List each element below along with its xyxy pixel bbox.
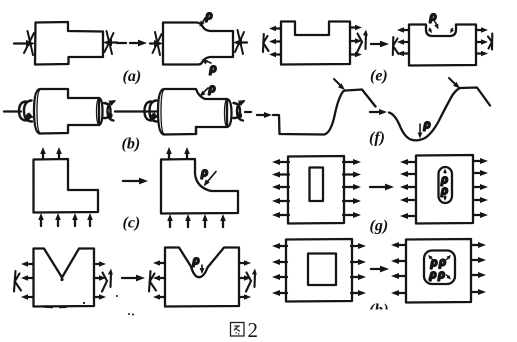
row a: transform dashed arrow <box>117 40 147 47</box>
row a: left bar load arrow left end <box>14 31 35 55</box>
row g: rho labels inside capsule <box>441 169 448 202</box>
row d: left block right end symbol <box>102 269 113 292</box>
row e: right bar right end symbol <box>488 34 492 50</box>
row g: left plate right arrows <box>343 159 361 218</box>
svg-text:(c): (c) <box>123 215 141 232</box>
row e: rho label with leader and corner arrows <box>428 8 454 33</box>
row e: left bar right arrows <box>350 25 362 58</box>
row h: right plate left arrows <box>391 242 405 296</box>
row e: left bar left end symbol <box>263 34 269 52</box>
row e: right notched bar with fillets <box>409 25 476 66</box>
row c: rho label with leader <box>201 164 217 187</box>
svg-text:(b): (b) <box>122 136 141 153</box>
row g: right plate left arrows <box>400 159 415 219</box>
row h: left plate right arrows <box>351 243 366 296</box>
row g: rectangular slot <box>310 168 324 202</box>
row g: left plate left arrows <box>272 159 289 218</box>
row f: left profile arrow <box>257 112 272 118</box>
row d: right block right end symbol <box>246 269 257 292</box>
row g: right plate right arrows <box>474 158 488 218</box>
row h: rounded square hole <box>424 251 455 285</box>
row a: right stepped bar with fillets <box>163 23 233 65</box>
svg-text:2: 2 <box>248 318 259 342</box>
row h: transform arrow <box>371 266 389 273</box>
row h: rho labels and corner arrows <box>428 254 451 282</box>
row c: left L-bracket <box>34 159 99 213</box>
row b: left shaft torque symbol left end <box>4 101 34 122</box>
row a: rho label top with leader <box>200 7 213 27</box>
row b: left stepped shaft body <box>34 89 103 134</box>
row a: left stepped bar <box>35 22 103 65</box>
row g: right plate <box>416 155 473 224</box>
row f: left profile with sharp corners <box>273 90 376 135</box>
svg-text:ρ: ρ <box>438 266 445 281</box>
svg-text:ρ: ρ <box>429 266 436 281</box>
row c: right top arrows <box>166 147 190 159</box>
row f: right profile peak arrow <box>449 78 460 89</box>
row d: rho label with down arrow <box>192 252 204 274</box>
row g: transform arrow <box>370 184 394 191</box>
row b: right shaft torque symbol left end <box>145 101 160 122</box>
row d: left block left arrows <box>21 261 33 300</box>
row a: right bar load arrow left end <box>150 32 163 55</box>
row f: right profile with round valley <box>389 88 490 141</box>
row b: left shaft torque symbol right end <box>104 100 145 121</box>
row h: left plate <box>286 239 352 302</box>
caption: figure 2 <box>231 318 259 342</box>
svg-text:ρ: ρ <box>208 80 215 95</box>
row d: right block left arrows <box>153 260 165 300</box>
row d: left block left end symbol <box>14 271 21 292</box>
label (h) partial <box>369 302 389 319</box>
svg-text:ρ: ρ <box>441 182 448 197</box>
row c: transform arrow <box>123 178 148 185</box>
row e: right bar left arrows <box>397 27 409 56</box>
row f: left profile peak arrow <box>334 79 345 90</box>
row h: square hole <box>308 254 336 286</box>
row e: left bar right end symbol <box>357 30 368 53</box>
row d: left block right arrows <box>94 261 106 300</box>
row e: right bar left end symbol <box>393 37 399 55</box>
row e: left notched bar <box>281 22 350 65</box>
row d: right block left end symbol <box>149 271 156 292</box>
svg-text:(f): (f) <box>369 130 385 147</box>
row c: left bottom arrows <box>38 213 93 226</box>
row c: right bottom arrows <box>167 214 226 227</box>
svg-text:(h): (h) <box>369 302 389 319</box>
row h: right plate right arrows <box>472 242 486 295</box>
row g: left plate <box>288 156 344 224</box>
row d: right block right arrows <box>239 260 251 300</box>
row d: scan smudges under left block <box>44 295 134 316</box>
row g: capsule slot <box>439 167 453 203</box>
row b: right shaft torque symbol right end <box>234 100 252 121</box>
row d: left block with sharp V-notch <box>34 249 95 307</box>
row a: right bar load arrow right end <box>233 30 247 54</box>
row h: right plate <box>406 239 471 303</box>
row d: transform arrow <box>122 275 145 282</box>
row e: right bar right arrows <box>476 27 488 56</box>
row h: left plate left arrows <box>272 243 287 296</box>
row b: right stepped shaft with fillet <box>158 89 232 135</box>
svg-text:(a): (a) <box>123 68 142 85</box>
row e: transform arrow <box>371 41 389 48</box>
svg-text:(e): (e) <box>370 68 388 85</box>
svg-text:ρ: ρ <box>192 252 199 267</box>
svg-text:ρ: ρ <box>205 7 212 22</box>
row d: right block with round-bottom notch <box>165 248 239 307</box>
svg-text:(g): (g) <box>370 218 389 235</box>
row a: left bar load arrow right end <box>103 31 117 54</box>
row b: rho label with leader <box>200 80 216 97</box>
row f: right profile arrow <box>370 109 387 115</box>
row f: rho label with down arrow <box>418 116 431 139</box>
row e: left bar left arrows <box>269 26 281 58</box>
svg-text:ρ: ρ <box>201 164 208 179</box>
svg-text:ρ: ρ <box>423 116 430 131</box>
row a: rho label bottom with leader <box>202 60 217 76</box>
row c: left top arrows <box>40 147 62 159</box>
row c: right L-bracket with fillet <box>161 159 238 214</box>
